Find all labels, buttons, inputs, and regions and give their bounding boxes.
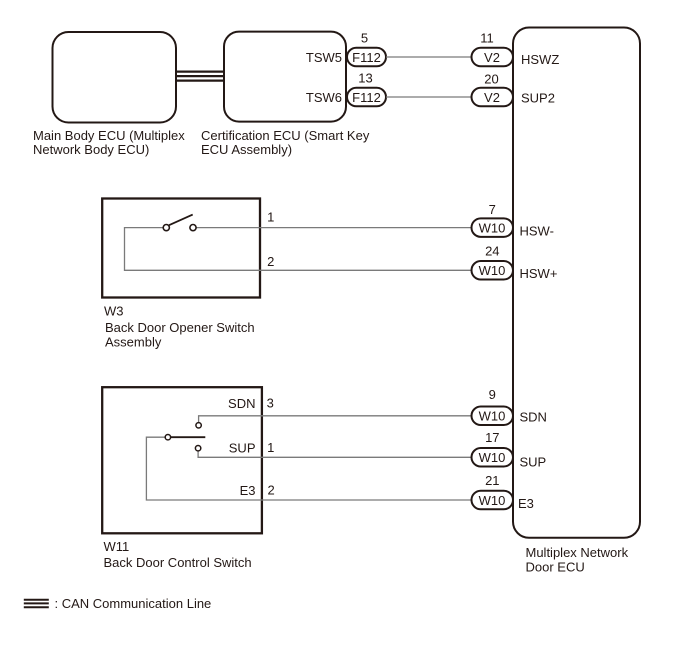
svg-text:HSWZ: HSWZ — [521, 52, 559, 67]
label Main Body ECU — [33, 128, 185, 157]
connector F112 (TSW5) — [347, 48, 386, 67]
switch W11 SDN contact — [196, 423, 201, 428]
connector F112 (TSW6) — [347, 88, 386, 107]
Multiplex Network Door ECU box — [513, 28, 640, 538]
connector W10 (HSW-) — [472, 218, 514, 237]
svg-text:HSW+: HSW+ — [520, 266, 558, 281]
wire TSW6 to SUP2 — [386, 96, 472, 98]
svg-text:SUP: SUP — [520, 454, 547, 469]
label Certification ECU — [201, 128, 370, 157]
switch W11 lever — [171, 436, 206, 438]
svg-text:W10: W10 — [479, 220, 506, 235]
svg-text:1: 1 — [267, 210, 274, 225]
svg-text:Main Body ECU (Multiplex: Main Body ECU (Multiplex — [33, 128, 185, 143]
label W3 — [104, 304, 255, 350]
svg-text:Network Body ECU): Network Body ECU) — [33, 142, 149, 157]
svg-text:ECU Assembly): ECU Assembly) — [201, 142, 292, 157]
svg-text:1: 1 — [267, 440, 274, 455]
svg-text:7: 7 — [489, 202, 496, 217]
wire W3 right contact to pin 1 — [196, 227, 472, 229]
connector W10 (SDN) — [472, 407, 514, 426]
svg-text:11: 11 — [480, 31, 494, 46]
svg-text:Multiplex Network: Multiplex Network — [526, 545, 629, 560]
svg-text:SDN: SDN — [520, 409, 547, 424]
svg-text:W10: W10 — [479, 450, 506, 465]
W11 box Back Door Control Switch — [102, 387, 262, 533]
svg-text:21: 21 — [485, 473, 499, 488]
Main Body ECU box — [53, 32, 177, 123]
svg-text:17: 17 — [485, 430, 499, 445]
wire W3 left contact loop to pin 2 — [125, 228, 472, 271]
switch W3 left contact — [163, 225, 169, 231]
legend CAN line symbol — [24, 600, 49, 608]
svg-text:20: 20 — [484, 72, 498, 87]
svg-text:SDN: SDN — [228, 396, 255, 411]
svg-text:W11: W11 — [104, 539, 130, 554]
svg-text:24: 24 — [485, 244, 499, 259]
Certification ECU box — [224, 32, 346, 122]
svg-text:: CAN Communication Line: : CAN Communication Line — [55, 596, 212, 611]
svg-text:E3: E3 — [240, 483, 256, 498]
switch W3 right contact — [190, 225, 196, 231]
label W11 — [104, 539, 252, 570]
svg-text:TSW6: TSW6 — [306, 90, 342, 105]
svg-text:V2: V2 — [484, 90, 500, 105]
svg-text:V2: V2 — [484, 50, 500, 65]
svg-text:Assembly: Assembly — [105, 335, 162, 350]
svg-text:F112: F112 — [352, 50, 381, 65]
wire W11 SUP contact to pin 1 — [198, 451, 471, 458]
connector W10 (SUP) — [472, 448, 514, 467]
svg-text:F112: F112 — [352, 90, 381, 105]
svg-text:5: 5 — [361, 31, 368, 46]
svg-text:2: 2 — [267, 254, 274, 269]
W3 box Back Door Opener Switch Assembly — [102, 199, 260, 298]
label Multiplex Network Door ECU — [526, 545, 629, 574]
svg-text:13: 13 — [358, 71, 372, 86]
CAN communication line (triple bus) — [176, 72, 224, 81]
svg-text:E3: E3 — [518, 496, 534, 511]
svg-text:Back Door Control Switch: Back Door Control Switch — [104, 555, 252, 570]
connector W10 (E3) — [472, 491, 514, 510]
svg-text:W10: W10 — [479, 493, 506, 508]
svg-text:TSW5: TSW5 — [306, 50, 342, 65]
switch W11 pivot contact — [165, 435, 170, 440]
svg-text:2: 2 — [267, 483, 274, 498]
connector V2 (HSWZ) — [472, 48, 514, 67]
svg-text:3: 3 — [267, 395, 274, 410]
connector V2 (SUP2) — [472, 88, 514, 107]
svg-text:HSW-: HSW- — [520, 224, 554, 239]
svg-text:W10: W10 — [479, 263, 506, 278]
svg-text:SUP: SUP — [229, 441, 256, 456]
wire W11 SDN contact to pin 3 — [199, 416, 472, 423]
svg-text:Door ECU: Door ECU — [526, 559, 585, 574]
svg-text:SUP2: SUP2 — [521, 90, 555, 105]
wire W11 common pole to pin 2 (E3) — [146, 437, 471, 500]
switch W3 lever — [169, 215, 193, 226]
svg-text:9: 9 — [489, 387, 496, 402]
svg-text:Certification ECU (Smart Key: Certification ECU (Smart Key — [201, 128, 370, 143]
switch W11 SUP contact — [195, 446, 200, 451]
svg-text:W10: W10 — [479, 409, 506, 424]
connector W10 (HSW+) — [472, 261, 514, 280]
wire TSW5 to HSWZ — [386, 56, 472, 58]
svg-text:Back Door Opener Switch: Back Door Opener Switch — [105, 320, 255, 335]
svg-text:W3: W3 — [104, 304, 124, 319]
